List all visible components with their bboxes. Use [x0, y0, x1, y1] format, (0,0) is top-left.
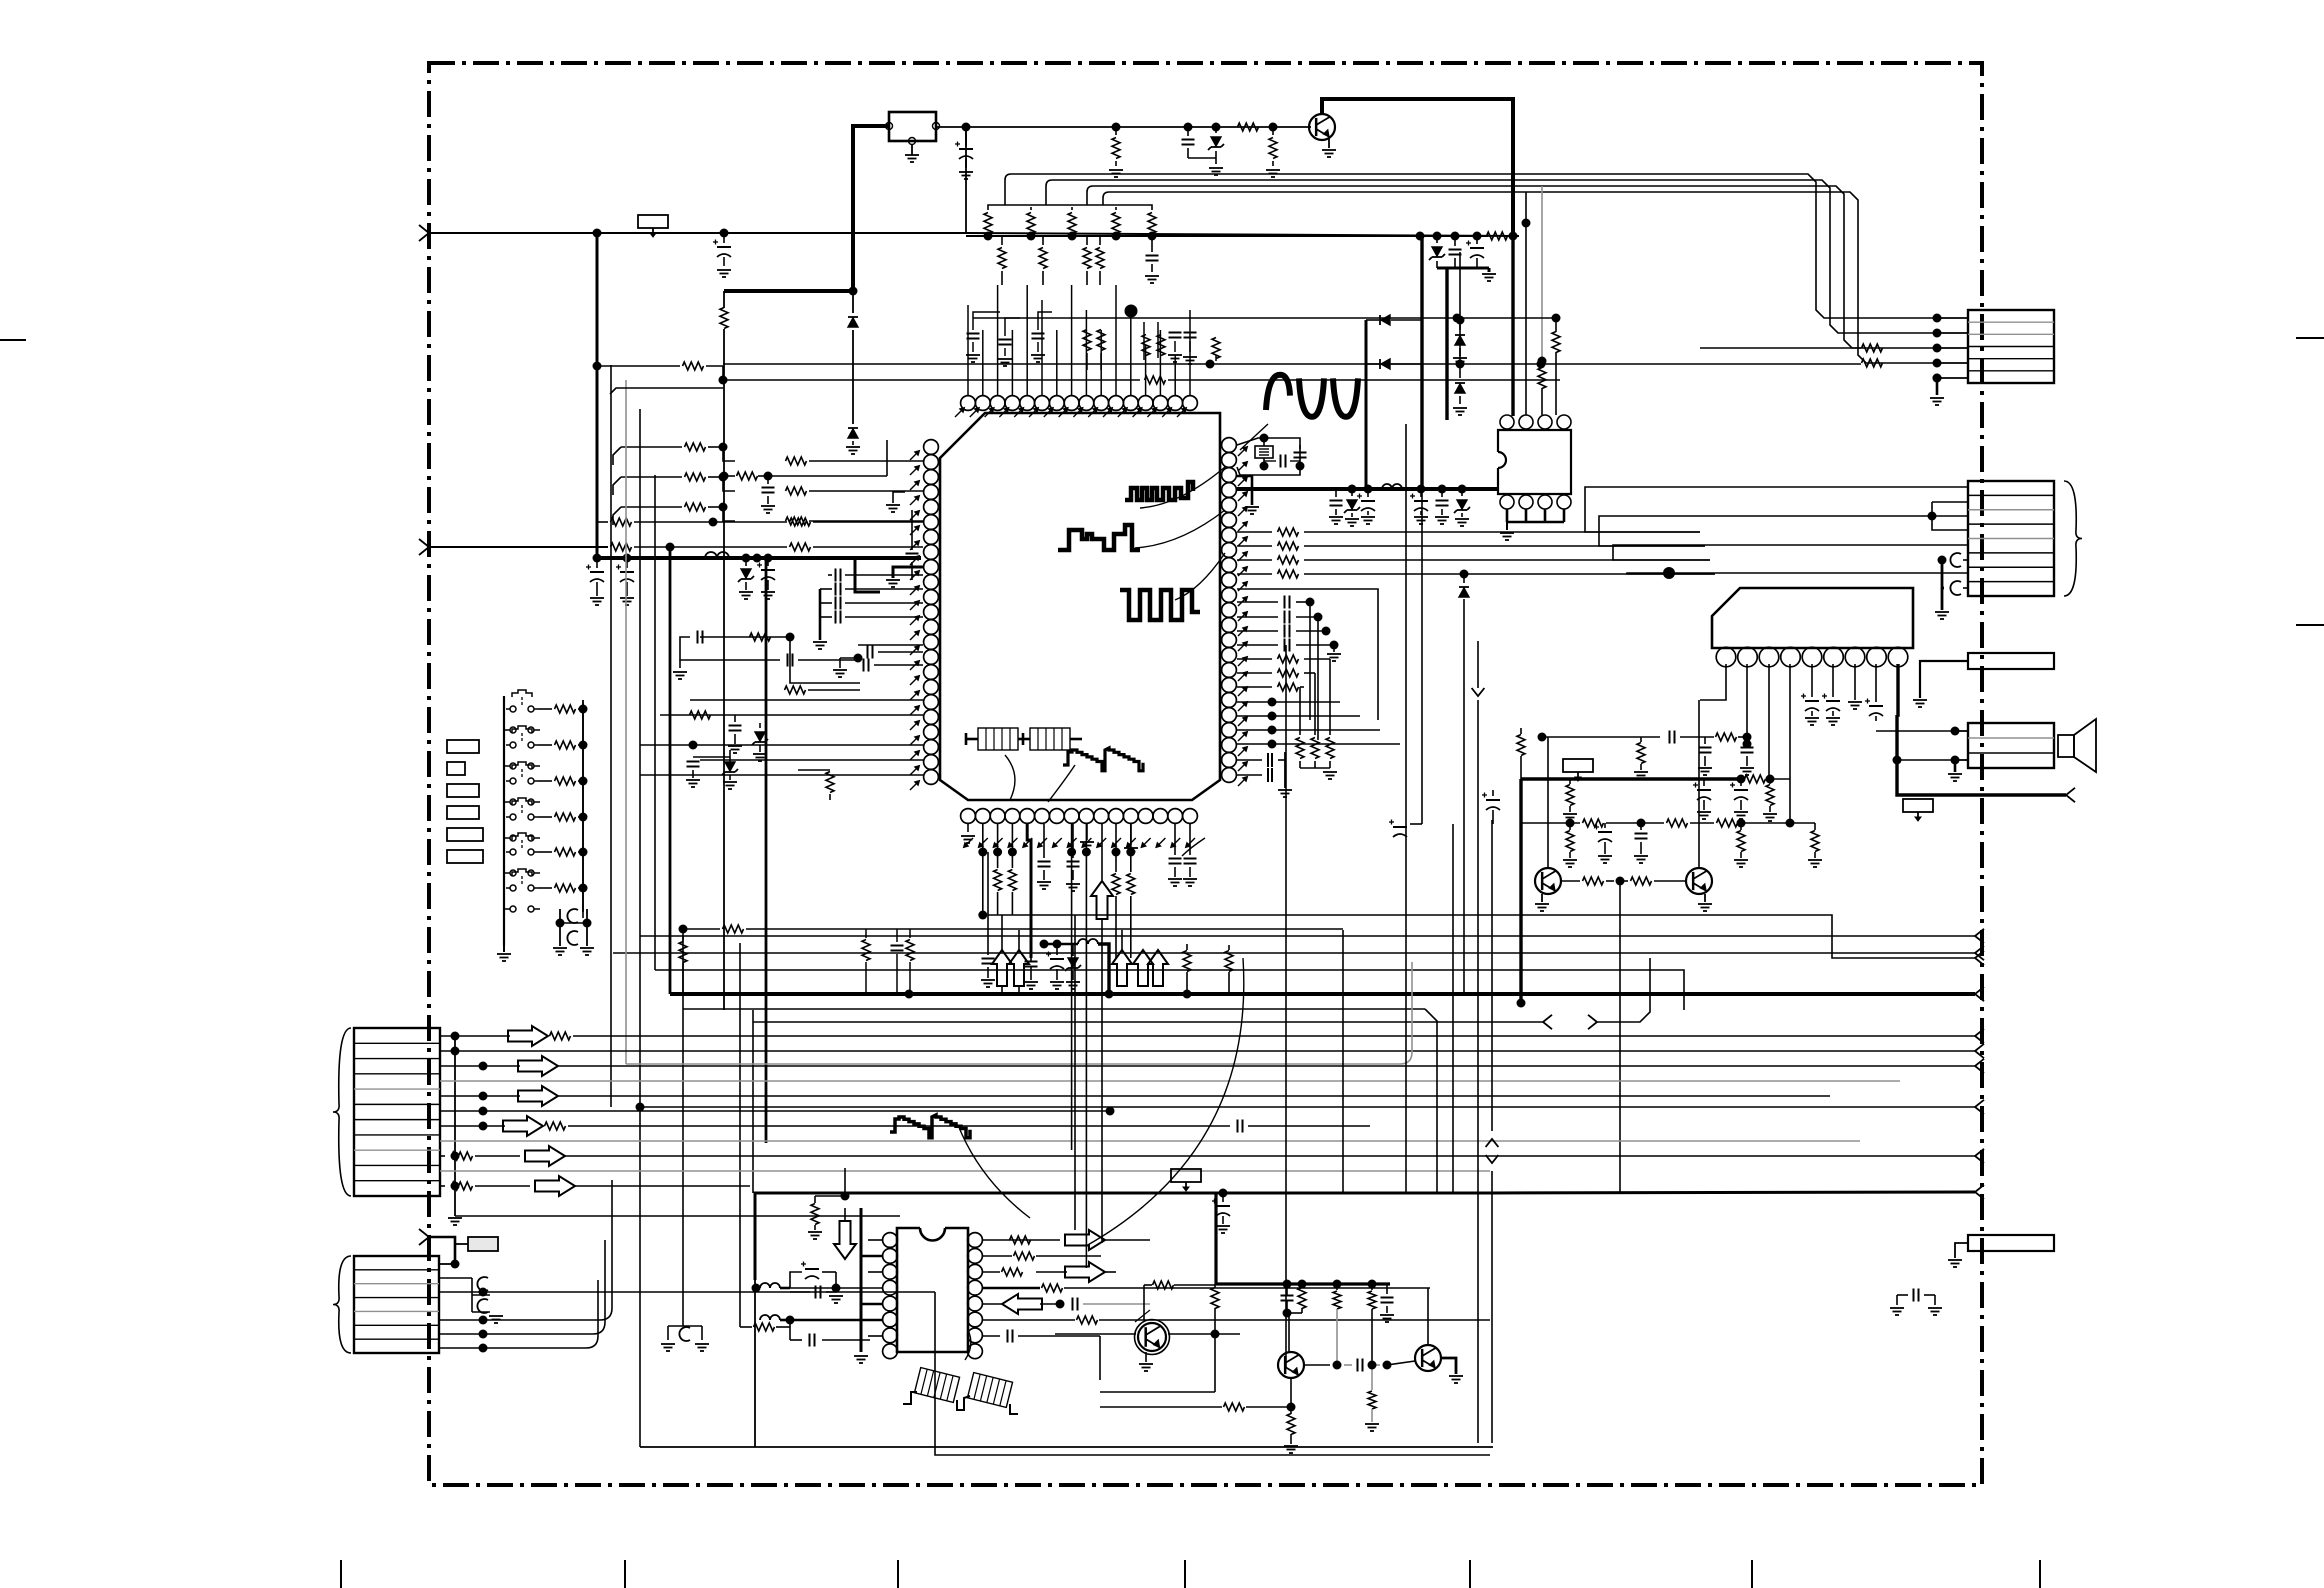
IC U1 left pin 10 [924, 575, 939, 590]
U4 res left [740, 1320, 790, 1331]
page tick bottom 4 [1184, 1560, 1186, 1588]
bus cap x1031 [1024, 958, 1038, 989]
TP bottom box [1171, 1169, 1201, 1191]
bottom thick x1031 [1027, 824, 1031, 958]
IC left rows 760-775 [640, 760, 923, 775]
diode D x853 upper [848, 291, 858, 424]
IC U1 top pin 5 [1020, 396, 1035, 411]
switch S3 [506, 762, 538, 784]
switch S4 resistor [538, 813, 588, 822]
IC U1 left pin 14 [924, 635, 939, 650]
IC U1 left pin 23 [924, 770, 939, 785]
resistor bank top R2 [1027, 207, 1036, 241]
IC right res row 3 [1237, 683, 1304, 691]
IC left cap gnd 715 [728, 715, 742, 753]
QA leader [1135, 1310, 1150, 1322]
IC U1 right pin 3 [1222, 468, 1237, 483]
thick vertical x1422 [1420, 236, 1423, 489]
crystal Y1 [1255, 434, 1273, 467]
IC U1 bottom pin 4 [1005, 809, 1020, 824]
ecap y1215 [1212, 1189, 1230, 1234]
waveform sawtooth inside IC [1063, 748, 1143, 771]
row y823 dots [1566, 819, 1795, 828]
U3 pin 7 [1845, 647, 1865, 667]
QC collector [1427, 1288, 1429, 1345]
IC U1 right pin 16 [1222, 663, 1237, 678]
IC left row 3 resistor2 [786, 517, 924, 525]
big junction dot topIC [1125, 305, 1138, 318]
resistor to gnd top 1 [1109, 123, 1123, 178]
U3 pin1 wire [1700, 664, 1726, 700]
U4 left pin 1 [883, 1233, 898, 1248]
net row y737 cap down2 [1740, 737, 1754, 775]
top pin feed wire 5 [1026, 285, 1028, 395]
bus chevron right [0, 0, 1, 1]
QB base row [1304, 1359, 1415, 1372]
IC U1 right pin 4 [1222, 483, 1237, 498]
resistor series top [1238, 123, 1278, 132]
wire bundle CN1 line 4 [1103, 192, 1937, 363]
res cluster topIC 3 [1142, 335, 1165, 356]
CN5 row3 [439, 1288, 1490, 1456]
U4 right pin 4 [968, 1280, 983, 1295]
transistor Q bottom C [1415, 1345, 1441, 1371]
U2 top pin 2 [1519, 415, 1533, 429]
switch S2 [506, 726, 538, 748]
CN4 brace [333, 1028, 351, 1196]
res cluster topIC 2 [1097, 330, 1105, 371]
row y823 res down3 [1808, 823, 1822, 867]
bottom caps x1172 x1186 [1168, 824, 1197, 886]
IC U1 left pin 17 [924, 680, 939, 695]
vert x1420 lower [1389, 489, 1422, 837]
CN1 junction dot 4 [1933, 359, 1969, 368]
zener on bus right [1429, 232, 1445, 269]
U4 pin wires left [790, 1240, 883, 1336]
resistor bank top R3 [1068, 207, 1077, 241]
rail558 ecap2 [616, 558, 634, 605]
U3 pin5 ecap [1801, 664, 1819, 725]
vertical bus x611 [610, 365, 612, 1107]
top pin feed wire 1 [967, 305, 969, 395]
rail ecap 1 [1357, 485, 1375, 525]
CN2 brace [2064, 481, 2082, 596]
row y779 res down2 [1763, 779, 1777, 821]
U3 pin2 wire [1746, 664, 1748, 737]
CN1 junction dot 5 [1933, 374, 1969, 383]
waveform pedestal square [1058, 525, 1140, 550]
down arrow into U4 [834, 1208, 856, 1259]
ecap on bus right [1466, 232, 1484, 269]
IC left gnd stub row4 [886, 492, 905, 512]
CN2 feed jogs [1700, 527, 1930, 532]
IC right cap row 2 [1237, 611, 1323, 624]
CN4 row5 [440, 1086, 1830, 1106]
bundle line y1107 [636, 1100, 1985, 1114]
Q pair resistors [1561, 877, 1686, 886]
CN5 brace [333, 1256, 351, 1353]
vertical bus x640 [639, 409, 641, 1447]
sawtooth glyph mid [890, 1115, 970, 1138]
bottom res x1146 [1112, 852, 1120, 958]
IC right dot row 2 [1237, 712, 1360, 721]
U4 leader curve [1086, 958, 1244, 1246]
CN4 row11 [440, 1176, 750, 1196]
switch bank left bus [503, 696, 505, 946]
IC U1 right pin 14 [1222, 633, 1237, 648]
wire y233 right segment [966, 233, 1519, 236]
IC U1 bottom pin 5 [1020, 809, 1035, 824]
QB emitter down [1287, 1378, 1296, 1412]
thick wire from X1 left down [724, 126, 889, 296]
IC U1 top pin 1 [961, 396, 976, 411]
rail coil [1382, 484, 1402, 489]
U4 left pin 6 [883, 1312, 898, 1327]
CN4 row9 [440, 1146, 1984, 1166]
res left of QA [1517, 728, 1525, 779]
up arrows x1143 x1158 [1133, 950, 1168, 986]
bus res x1229 [1225, 945, 1233, 994]
CN5 dot row1 [439, 1260, 460, 1269]
row y823 ecap down [1594, 823, 1612, 863]
IC U1 left pin 8 [924, 545, 939, 560]
IC U1 right pin 12 [1222, 603, 1237, 618]
IC U1 top pin 4 [1005, 396, 1020, 411]
IC U1 right pin 23 [1222, 768, 1237, 783]
ground stub pin5 [1237, 476, 1259, 514]
U2 bottom pin 4 [1557, 495, 1571, 509]
rail558 coil [705, 552, 729, 558]
bus res x1187 [1183, 944, 1192, 999]
U4 coil 1 [752, 1283, 791, 1293]
CN3 dot2 [1951, 756, 1969, 765]
U4 right pin 2 [968, 1249, 983, 1264]
rail558 ecap1 [586, 558, 604, 605]
top pin feed wire 3 [997, 285, 999, 395]
IC left row 1 wires [613, 443, 735, 466]
CN1 junction dot 3 [1933, 344, 1969, 353]
resistor bank top R4 [1112, 207, 1121, 241]
CN4 gnd [448, 1218, 462, 1225]
up arrow x1122 [1112, 930, 1132, 986]
vertical bus x740 [739, 943, 741, 1327]
CN4 row8 gray [440, 1140, 1860, 1142]
junction y233 x597 [593, 229, 602, 238]
FET glyph pin22 [1237, 752, 1285, 775]
U4 right pin 5 [968, 1296, 983, 1311]
res gnd above U4 [808, 1192, 850, 1240]
IC left cluster 760 [686, 741, 738, 790]
IC U1 right pin 11 [1222, 588, 1237, 603]
vertical bus x583 [582, 700, 584, 912]
IC U1 left pin 5 [924, 500, 939, 515]
switch S6 resistor [538, 884, 588, 893]
test point TP1 [638, 215, 668, 237]
Q mid vertical down [1619, 881, 1621, 1192]
cap crystal series [1264, 455, 1300, 468]
page tick right edge upper [2296, 337, 2324, 339]
IC U1 left pin 20 [924, 725, 939, 740]
switch S6 [506, 869, 538, 891]
IC U1 right pin 15 [1222, 648, 1237, 663]
IC left row 715 [660, 711, 923, 719]
IC bottom pin1 gnd [961, 824, 975, 843]
IC right cap row 1 [1237, 596, 1315, 609]
row366 wire [593, 362, 742, 385]
U2 pin2 wire up [1522, 192, 1531, 415]
CN3 gnd [1948, 760, 1962, 781]
vert x1406 [1405, 424, 1407, 1193]
IC U1 left pin 21 [924, 740, 939, 755]
IC U1 top pin 10 [1094, 396, 1109, 411]
CN2 clip2 [1950, 581, 1968, 595]
U2 wires down left [1506, 509, 1508, 516]
U2 bottom pin 3 [1538, 495, 1552, 509]
U3 pin4 wire [1789, 664, 1791, 823]
cap rows vertical 2 [1317, 617, 1319, 740]
IC U1 bottom pin 12 [1123, 809, 1138, 824]
IC right row res 1 [1237, 528, 1700, 536]
switch S5 resistor [538, 848, 588, 857]
QB gnd res [1284, 1407, 1298, 1453]
wire pin1 right loop [1237, 438, 1300, 475]
IC U4 body [897, 1228, 968, 1352]
IC U1 right pin 18 [1222, 693, 1237, 708]
IC U1 right pin 17 [1222, 678, 1237, 693]
CN1 line4 wire [723, 363, 1861, 365]
IC U3 power amp body [1712, 588, 1913, 648]
resistor in bus y236 [1487, 232, 1508, 240]
IC right row res 2 [1237, 542, 1705, 550]
cap rows gnd [1327, 645, 1341, 661]
C clip bottom left [661, 1326, 709, 1351]
IC U1 right pin 13 [1222, 618, 1237, 633]
IC left thick row [855, 558, 880, 592]
resistor row2 R2 [1039, 236, 1047, 285]
IC U1 left pin 18 [924, 695, 939, 710]
IC U1 left pin 9 [924, 560, 939, 575]
vertical bus x626 [625, 380, 627, 1064]
res on x724 [720, 308, 728, 329]
IC left row5 [597, 518, 923, 527]
U2 pin3 wire up gray [1538, 186, 1547, 415]
res v x683 [679, 936, 687, 994]
U2 bottom pins bus [1507, 509, 1564, 522]
bottom cap x1073 [1066, 824, 1080, 891]
ground below X1 [905, 145, 919, 162]
wire bundle CN1 line 3 [1087, 186, 1937, 348]
IC U1 left pin 4 [924, 485, 939, 500]
IC U1 left pin 13 [924, 620, 939, 635]
bus ecap x1057 [1046, 940, 1064, 990]
CN4 vert bus x455 [454, 1036, 456, 1216]
vert x1547 none [0, 0, 1, 1]
wire y236 end [1505, 235, 1513, 237]
row y779 res down [1563, 779, 1577, 821]
connector CN3 [1968, 723, 2054, 768]
leader arc to filter [1005, 755, 1015, 800]
U3 pin8 ecap [1865, 664, 1883, 721]
resistor row2 R1 [998, 236, 1006, 285]
IC U1 top pin 7 [1049, 396, 1064, 411]
Q A gnd [1535, 894, 1549, 911]
indicator box 6 [447, 850, 483, 863]
indicator box 2 [447, 762, 465, 775]
net row y737 res down [1634, 737, 1648, 779]
res topIC x1216 [1212, 338, 1220, 362]
connector CN2 [1968, 481, 2054, 596]
cap at crystal right [1294, 445, 1307, 458]
IC U1 top pin 16 [1183, 396, 1198, 411]
IC left row 3 wires [613, 503, 735, 526]
IC U1 right pin 21 [1222, 738, 1237, 753]
vert x1453 [1452, 824, 1454, 1192]
IC U1 top pin 8 [1064, 396, 1079, 411]
vertical bus x670 thick [669, 547, 672, 994]
U4 left pin 7 [883, 1328, 898, 1343]
U4 right pin 8 [968, 1344, 983, 1359]
CN4 row10 gray [440, 1170, 1490, 1172]
board outline dash-dot border [429, 63, 1982, 1485]
thick vertical x1366 [1365, 320, 1368, 489]
dot row361 x1541 [1537, 360, 1546, 369]
electrolytic C top [955, 127, 973, 179]
rail zener 1 [1344, 485, 1360, 527]
res gnd x1372 [1365, 1365, 1379, 1431]
IC U2 body [1498, 430, 1571, 494]
switch S1 resistor [538, 705, 588, 714]
U4 left pin 5 [883, 1296, 898, 1311]
thick row y779 [1521, 775, 1790, 784]
bus1284 res x1337 [1333, 1284, 1341, 1365]
cap cluster topIC 2 [998, 318, 1020, 366]
switch S2 lower contact [504, 763, 540, 769]
IC U1 bottom pin 3 [990, 809, 1005, 824]
U2 pin4 wire up [1552, 314, 1561, 416]
IC left zener 730 [752, 723, 768, 761]
vertical thick x766 [765, 558, 768, 1143]
IC U1 right pin 22 [1222, 753, 1237, 768]
IC U1 left pin 11 [924, 590, 939, 605]
triple res stack [1296, 659, 1337, 779]
connector CN5 [354, 1256, 439, 1353]
transistor Q right A [1535, 868, 1561, 894]
IC U1 left pin 15 [924, 650, 939, 665]
vertical bus x683 [682, 929, 684, 1326]
QA collector wire [1143, 1285, 1145, 1320]
wire bundle CN1 line 2 [1046, 180, 1937, 333]
cap on bus right [1449, 232, 1462, 269]
resistor row2 R3 [1083, 236, 1091, 285]
page tick bottom 1 [340, 1560, 342, 1588]
CN1 resistor line3 [1700, 344, 1883, 352]
wire resbank tops [988, 205, 1152, 207]
transistor Q1 top [1309, 114, 1335, 140]
IC U1 bottom pin 11 [1109, 809, 1124, 824]
U4 coil 2 [760, 1315, 795, 1325]
vert x1492 [1486, 820, 1499, 1443]
waveform leader arc 2 [1135, 510, 1225, 548]
junction y233 x724 [720, 229, 729, 238]
switch S5 lower contact [504, 870, 540, 876]
res v x866 cluster [862, 929, 914, 994]
leader from sawtooth mid [958, 1125, 1030, 1218]
row y823 res down [1563, 823, 1577, 867]
U2 bottom pin 2 [1519, 495, 1533, 509]
U3 pin6 ecap [1822, 664, 1840, 725]
bottom res x1158 [1127, 852, 1135, 958]
IC right res row 1 [1237, 655, 1330, 663]
page tick right edge lower [2296, 624, 2324, 626]
CN4 row3 [440, 1056, 1984, 1076]
U2 bottom pin 1 [1500, 495, 1514, 509]
resistor to gnd top 2 [1266, 127, 1280, 177]
dot x1372 row [1368, 1361, 1377, 1370]
bundle line y1022 [753, 958, 1650, 1029]
IC U1 left pin 19 [924, 710, 939, 725]
ceramic filter glyph pair [966, 728, 1082, 750]
CN4 row1 [440, 1026, 1984, 1046]
bottom verticals long [978, 852, 1086, 1268]
IC U1 left pin 22 [924, 755, 939, 770]
CN1 line4 jct [1206, 360, 1215, 369]
U4 left pin 8 [883, 1344, 898, 1359]
connector CN small y660 [1968, 653, 2054, 669]
IC U1 right pin 7 [1222, 528, 1237, 543]
top pin feed wire 8 [1071, 285, 1073, 395]
IC U1 left pin 7 [924, 530, 939, 545]
switch S2 resistor [538, 741, 588, 750]
gray res to bus [1144, 1281, 1216, 1289]
junction crystal [1260, 462, 1305, 471]
clip pair below switches [553, 909, 594, 955]
CN small gnd wire [1913, 661, 1968, 707]
U4 right pin 3 [968, 1264, 983, 1279]
up arrows pair x1002 x1019 [992, 915, 1029, 994]
junction top wire [962, 123, 971, 132]
diode column x1460 1 [1453, 316, 1467, 366]
thick rail y558 [597, 556, 921, 560]
bus wire y944 [1044, 943, 1057, 945]
IC left row6 [419, 539, 923, 555]
IC U1 right pin 5 [1222, 498, 1237, 513]
bus1284 cap x1287 [1281, 1284, 1294, 1318]
IC left row 2 resistor2 [786, 487, 924, 495]
pin arrows U1 left [908, 449, 921, 792]
IC U1 left pin 6 [924, 515, 939, 530]
wire x1460 vertical [1459, 252, 1461, 364]
Q A collector up [1547, 737, 1549, 868]
diode D right1 [1366, 315, 1422, 325]
vert x1343 down [1342, 930, 1344, 1193]
switch S4 [506, 798, 538, 820]
bottom res x1002 [994, 852, 1002, 915]
switch bank gnd [497, 946, 511, 961]
row y779 ecap down2 [1730, 775, 1748, 820]
IC U1 top pin 3 [990, 396, 1005, 411]
indicator box 3 [447, 784, 479, 797]
bundle line y1009 [683, 1009, 1437, 1192]
net row y737 [1538, 731, 1752, 744]
switch S3 lower contact [504, 799, 540, 805]
IC left row 1 resistor2 [786, 457, 924, 465]
bottom gnd x1087 [1080, 824, 1094, 849]
leader arrow caps [1182, 838, 1205, 856]
CN4 row7 [440, 1116, 1370, 1136]
IC right cap row 4 [1237, 639, 1339, 652]
bus cap x988 [981, 915, 995, 987]
page tick bottom 7 [2039, 1560, 2041, 1588]
